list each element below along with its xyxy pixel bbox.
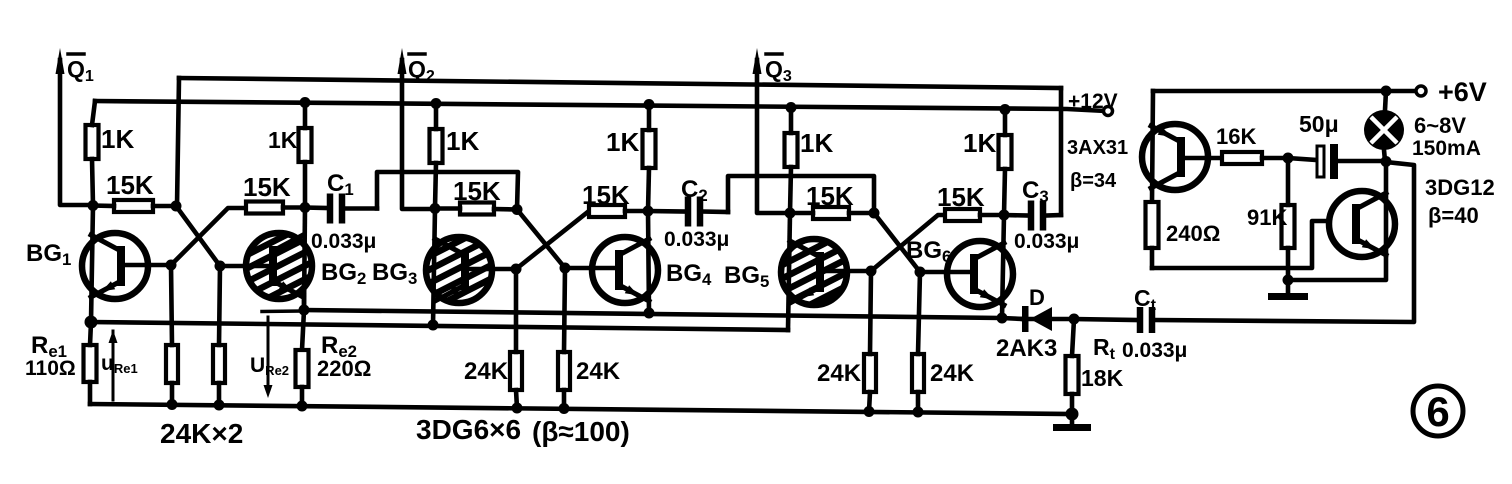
- wire BG4 base lead: [565, 266, 619, 271]
- terminal +6V: [1416, 86, 1426, 96]
- wire BG1 base lead: [125, 263, 171, 268]
- label 0.033u (C2): [664, 228, 729, 251]
- svg-text:0.033μ: 0.033μ: [1122, 339, 1187, 362]
- transistor BG1: [82, 233, 148, 299]
- label 1K (stage2 left): [446, 126, 479, 156]
- label 1K (stage1 right): [268, 127, 298, 153]
- wire T1 base lead: [1185, 156, 1222, 161]
- label C3: [1022, 177, 1049, 206]
- wire +12V supply rail: [95, 101, 1106, 111]
- resistor R-24K-5: [864, 271, 876, 412]
- node C1-left BG2 collector: [300, 202, 311, 213]
- svg-text:91K: 91K: [1247, 205, 1287, 230]
- resistor 91K: [1282, 158, 1295, 280]
- capacitor 50u electrolytic: [1288, 144, 1386, 179]
- svg-text:0.033μ: 0.033μ: [664, 228, 729, 251]
- label 24K (stage2 left): [464, 358, 509, 385]
- label Q2-bar: [408, 54, 435, 85]
- svg-text:15K: 15K: [806, 181, 854, 211]
- node rail-1K6: [1000, 104, 1011, 115]
- node 24K-4 bottom: [559, 403, 570, 414]
- resistor R-24K-2: [213, 266, 225, 405]
- resistor 240ohm: [1146, 202, 1159, 268]
- wire BG6 collector bus: [1002, 215, 1004, 318]
- label D: [1029, 285, 1045, 310]
- label BG6: [906, 237, 951, 266]
- svg-text:24K×2: 24K×2: [160, 418, 243, 449]
- label 150mA: [1412, 137, 1481, 160]
- svg-text:110Ω: 110Ω: [25, 357, 76, 380]
- resistor R-15K-4: [589, 205, 648, 217]
- node BG1 base: [166, 260, 177, 271]
- label 15K (stage2 left): [453, 176, 501, 206]
- node C3-left BG6 collector: [999, 210, 1010, 221]
- svg-text:15K: 15K: [106, 170, 154, 200]
- svg-text:0.033μ: 0.033μ: [311, 230, 376, 253]
- svg-text:β=34: β=34: [1070, 170, 1117, 192]
- wire BG6 base lead: [920, 270, 974, 275]
- label u_Re1: [101, 352, 138, 376]
- label 15K (stage1 left): [106, 170, 154, 200]
- label u_Re2: [250, 354, 289, 378]
- node B2 15K3-right/C1-in: [512, 204, 523, 215]
- wire BG5 collector bus: [788, 213, 790, 330]
- resistor R-15K-6: [945, 209, 1004, 221]
- resistor R-1K-1: [86, 101, 99, 205]
- resistor R-1K-4: [643, 104, 656, 211]
- label 1K (stage2 right): [606, 127, 639, 157]
- node A3 collector BG5: [785, 208, 796, 219]
- label 16K: [1216, 124, 1256, 149]
- transistor BG2: [246, 233, 312, 299]
- svg-text:240Ω: 240Ω: [1166, 221, 1220, 246]
- wire T2 emitter to ground: [1288, 255, 1386, 280]
- resistor R-1K-2: [299, 102, 312, 208]
- ground symbol (main): [1053, 414, 1091, 431]
- label 91K: [1247, 205, 1287, 230]
- wire BG4 collector bus: [648, 211, 649, 313]
- label 1K (stage3 left): [800, 128, 833, 158]
- label 3AX31: [1067, 137, 1128, 159]
- wire C2 bridge to stage3: [728, 176, 874, 213]
- label 2AK3: [996, 335, 1057, 362]
- output Q2 wire: [402, 60, 434, 209]
- label 24K (stage3 left): [817, 360, 862, 387]
- wire C1 bridge to stage2: [377, 172, 518, 210]
- node T1 base junction: [1283, 153, 1294, 164]
- node C2-left BG4 collector: [643, 206, 654, 217]
- label 15K (stage3 right): [937, 182, 985, 212]
- svg-text:15K: 15K: [582, 180, 630, 210]
- output Q2 arrowhead: [398, 48, 407, 74]
- transistor BG6: [947, 241, 1013, 307]
- node BG3 base: [511, 264, 522, 275]
- label 18K: [1081, 365, 1124, 391]
- lamp 6-8V: [1364, 91, 1404, 161]
- label 240ohm: [1166, 221, 1220, 246]
- transistor 3DG12 (T2): [1329, 191, 1395, 257]
- svg-text:150mA: 150mA: [1412, 137, 1481, 160]
- svg-text:15K: 15K: [937, 182, 985, 212]
- label Re2: [321, 332, 357, 361]
- output Q3 wire: [757, 60, 790, 213]
- svg-text:50μ: 50μ: [1299, 111, 1339, 137]
- node rail-1K4: [644, 99, 655, 110]
- output Q1 arrowhead: [56, 48, 65, 74]
- ground symbol (driver): [1268, 280, 1308, 300]
- node BG6 base: [915, 267, 926, 278]
- wire cross-coupling BG3 base to 15K-4: [516, 211, 589, 269]
- wire BG2 collector bus: [304, 208, 305, 311]
- capacitor Ct: [1074, 162, 1414, 333]
- node rail-1K5: [786, 102, 797, 113]
- node 24K-3 bottom: [512, 403, 523, 414]
- label 0.033u (C3): [1014, 230, 1079, 253]
- svg-text:220Ω: 220Ω: [317, 356, 371, 381]
- resistor Rt 18K: [1066, 319, 1079, 414]
- svg-text:0.033μ: 0.033μ: [1014, 230, 1079, 253]
- resistor R-24K-1: [166, 265, 178, 405]
- label Q3-bar: [765, 54, 792, 85]
- wire BG1 collector bus: [91, 206, 93, 323]
- node A2 collector BG3: [430, 203, 441, 214]
- wire bottom ground rail: [90, 404, 1072, 414]
- wire cross-coupling B2 to BG4 base: [517, 210, 565, 269]
- resistor R-15K-5: [790, 207, 874, 219]
- resistor R-1K-6: [999, 109, 1012, 215]
- node BG2 emitter on rail Re2: [299, 305, 310, 316]
- resistor R-15K-3: [435, 203, 517, 215]
- resistor R-24K-4: [558, 268, 570, 409]
- node Re1 top / BG1 emitter: [85, 316, 98, 329]
- svg-text:1K: 1K: [446, 126, 479, 156]
- wire cross-coupling B1 to BG2 base: [176, 206, 220, 266]
- node 91K bottom / T2 emitter: [1283, 275, 1294, 286]
- node BG5 base: [866, 266, 877, 277]
- resistor R-15K-2: [246, 202, 305, 214]
- svg-text:1K: 1K: [800, 128, 833, 158]
- node BG6 emitter to diode: [997, 313, 1008, 324]
- label BG2: [321, 259, 366, 288]
- wire cross-coupling B3 to BG6 base: [874, 213, 920, 272]
- node B3 15K5-right/C2-in: [869, 208, 880, 219]
- node rail-1K3: [431, 98, 442, 109]
- svg-text:16K: 16K: [1216, 124, 1256, 149]
- label 0.033u (C1): [311, 230, 376, 253]
- resistor R-15K-1: [93, 200, 175, 212]
- wire cross-coupling BG1 base to 15K-2: [171, 208, 246, 265]
- label BG5: [724, 262, 769, 291]
- node 24K-1 bottom: [167, 399, 178, 410]
- wire feedback drop at x=1061 to C3 right plate: [1059, 88, 1064, 215]
- label 1K (stage3 right): [963, 128, 996, 158]
- wire emitter rail Re2 (BG2 BG4 BG6) to diode: [304, 310, 1023, 319]
- label 3DG12: [1425, 175, 1495, 200]
- node lamp bottom / T2 collector: [1381, 156, 1392, 167]
- svg-text:24K: 24K: [576, 358, 621, 385]
- svg-text:15K: 15K: [453, 176, 501, 206]
- label BG1: [26, 240, 71, 269]
- node BG4 emitter on rail Re2: [644, 308, 655, 319]
- svg-text:2AK3: 2AK3: [996, 335, 1057, 362]
- u_Re2 reference bar: [262, 309, 301, 313]
- label C2: [681, 176, 708, 205]
- svg-text:3DG6×6: 3DG6×6: [416, 414, 521, 445]
- diode D 2AK3: [1022, 306, 1074, 332]
- resistor R-24K-6: [912, 272, 924, 412]
- label 24K×2: [160, 418, 243, 449]
- svg-text:1K: 1K: [101, 124, 134, 154]
- resistor Re1 110: [84, 322, 97, 404]
- label +6V: [1438, 77, 1487, 107]
- node rail-1K2: [300, 97, 311, 108]
- wire T1 left bus: [1152, 91, 1153, 202]
- output Q3 arrowhead: [753, 48, 762, 74]
- svg-text:24K: 24K: [817, 360, 862, 387]
- transistor BG4: [592, 237, 658, 303]
- label BG3: [372, 259, 417, 288]
- svg-text:1K: 1K: [606, 127, 639, 157]
- wire cross-coupling BG5 base to 15K-6: [871, 215, 945, 271]
- wire BG3 collector bus: [433, 209, 435, 326]
- u_Re1 measure arrow: [109, 330, 118, 400]
- resistor R-24K-3: [510, 269, 522, 408]
- svg-text:+6V: +6V: [1438, 77, 1487, 107]
- wire BG2 base lead: [220, 264, 273, 269]
- svg-text:1K: 1K: [268, 127, 298, 153]
- node 24K-2 bottom: [214, 400, 225, 411]
- wire T2 collector bus: [1384, 162, 1389, 256]
- node diode output: [1069, 314, 1080, 325]
- node Re2 bottom: [297, 401, 308, 412]
- wire +6V top: [1153, 89, 1421, 94]
- node 24K-5 bottom: [864, 406, 875, 417]
- svg-text:18K: 18K: [1081, 365, 1124, 391]
- svg-text:6: 6: [1426, 388, 1449, 435]
- u_Re2 measure arrow: [264, 317, 273, 398]
- svg-text:D: D: [1029, 285, 1045, 310]
- svg-text:β=40: β=40: [1428, 203, 1479, 228]
- wire BG3 base lead: [469, 267, 516, 272]
- label 220ohm: [317, 356, 371, 381]
- label Rt: [1093, 334, 1116, 363]
- wire BG2 emitter bus: [302, 295, 307, 310]
- node lamp top on +6V rail: [1381, 86, 1392, 97]
- label BG4: [666, 260, 712, 289]
- svg-text:24K: 24K: [464, 358, 509, 385]
- label beta=40 (T2): [1428, 203, 1479, 228]
- capacitor C3: [1004, 201, 1061, 231]
- label 50u: [1299, 111, 1339, 137]
- label 6~8V: [1414, 113, 1466, 138]
- capacitor C1: [305, 194, 377, 224]
- svg-text:6~8V: 6~8V: [1414, 113, 1466, 138]
- label 24K (stage3 right): [930, 360, 975, 387]
- label 0.033u (Ct): [1122, 339, 1187, 362]
- svg-text:15K: 15K: [243, 172, 291, 202]
- wire emitter rail Re1 (BG1 BG3 BG5): [91, 322, 788, 330]
- page number circled 6: [1413, 386, 1463, 436]
- label 15K (stage3 left): [806, 181, 854, 211]
- wire Re2 hang wire: [302, 310, 304, 350]
- node BG2 base: [215, 261, 226, 272]
- svg-text:(β≈100): (β≈100): [532, 416, 630, 447]
- transistor BG5: [781, 239, 847, 305]
- label 24K (stage2 right): [576, 358, 621, 385]
- node BG3 emitter on rail Re1: [428, 320, 439, 331]
- label Q1-bar: [67, 54, 94, 85]
- wire feedback drop at x=179 to node A1: [177, 78, 179, 206]
- resistor R-1K-3: [430, 103, 443, 208]
- label 15K (stage2 right): [582, 180, 630, 210]
- svg-text:+12V: +12V: [1068, 90, 1118, 113]
- svg-text:1K: 1K: [963, 128, 996, 158]
- transistor BG3: [426, 237, 492, 303]
- label C1: [327, 170, 354, 199]
- svg-text:24K: 24K: [930, 360, 975, 387]
- node BG4 base: [560, 263, 571, 274]
- label Re1: [31, 332, 67, 361]
- label 110ohm: [25, 357, 76, 380]
- label 1K (stage1 left): [101, 124, 134, 154]
- label +12V: [1068, 90, 1118, 113]
- wire T1 collector to T2 base: [1152, 221, 1352, 268]
- label Ct: [1134, 285, 1157, 314]
- resistor R-1K-5: [785, 107, 798, 213]
- label 15K (stage1 right): [243, 172, 291, 202]
- node A1 collector BG1: [88, 200, 99, 211]
- transistor 3AX31 (T1): [1142, 124, 1208, 190]
- label beta=34 (T1): [1070, 170, 1117, 192]
- output Q1 wire: [60, 60, 91, 205]
- svg-text:3DG12: 3DG12: [1425, 175, 1495, 200]
- wire top feedback line from C3 to stage1: [179, 78, 1061, 88]
- node 24K-6 bottom: [913, 407, 924, 418]
- capacitor C2: [648, 197, 728, 227]
- resistor Re2 220: [296, 350, 309, 406]
- svg-text:3AX31: 3AX31: [1067, 137, 1128, 159]
- label 3DG6x6 beta=100: [416, 414, 630, 447]
- node B1 15K1-right/feedback: [171, 201, 182, 212]
- node ground join: [1066, 408, 1079, 421]
- wire BG5 base lead: [824, 269, 871, 274]
- resistor 16K: [1222, 152, 1288, 164]
- terminal +12V: [1104, 107, 1113, 116]
